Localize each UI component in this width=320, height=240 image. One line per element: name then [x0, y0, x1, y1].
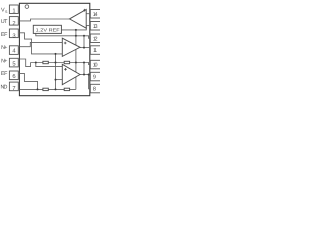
- pin boxes left: [9, 5, 18, 91]
- wire middle comparator output to pin11: [80, 47, 90, 49]
- svg-text:EF: EF: [1, 32, 8, 38]
- svg-text:UT: UT: [1, 19, 8, 25]
- wire output branch to pin8: [89, 75, 91, 89]
- pin 4 box: [9, 46, 18, 55]
- pin numbers: [12, 8, 16, 92]
- pin 9 box: [90, 72, 100, 81]
- node dot tap12/feedback: [83, 35, 85, 37]
- wire 1.2V REF output: [62, 26, 87, 30]
- wire bottom divider GND rail: [19, 88, 76, 90]
- node dot REF out tee: [75, 29, 77, 31]
- op-amp U3 bottom comparator: [62, 64, 80, 84]
- plus sign U1: [83, 9, 86, 12]
- pin 13 box: [90, 22, 100, 31]
- node dot tap12/REF: [75, 35, 77, 37]
- svg-text:6: 6: [12, 73, 15, 80]
- svg-text:1.2V REF: 1.2V REF: [36, 27, 60, 32]
- pin 11 box: [90, 46, 100, 55]
- resistor R2 divider upper-right: [64, 61, 69, 63]
- wire divider tap to pin12: [36, 33, 91, 38]
- wire pin14 to top comparator + input: [86, 13, 90, 15]
- wire branch to bottom + input: [36, 63, 63, 67]
- pin 7 box: [9, 82, 18, 91]
- plus sign U3: [64, 68, 67, 71]
- pin 5 box: [9, 58, 18, 67]
- wire middle feedback vertical: [83, 36, 85, 48]
- svg-text:7: 7: [12, 86, 15, 92]
- pin-1 indicator circle: [25, 5, 29, 9]
- pin labels left (clipped at image edge): [1, 8, 9, 91]
- resistor R1 divider upper-left: [43, 61, 48, 63]
- svg-text:1: 1: [12, 8, 15, 14]
- pin boxes right: [90, 10, 100, 93]
- node dot rail/- input: [55, 79, 57, 81]
- pin 8 box: [90, 84, 100, 93]
- op-amp U2 middle comparator: [62, 38, 80, 56]
- node dot rail/divider: [55, 62, 57, 64]
- svg-text:10: 10: [93, 63, 98, 69]
- svg-text:5: 5: [12, 62, 15, 68]
- IC body outline: [19, 3, 89, 95]
- pin 3 box: [9, 29, 18, 38]
- node dot rail/gnd rail: [55, 88, 57, 90]
- svg-text:N+: N+: [1, 45, 7, 51]
- wire pin3 REF to middle comparator - input: [19, 33, 62, 54]
- wire pin2 OUT to top comparator: [19, 19, 69, 21]
- node dot rail/min line: [55, 53, 57, 55]
- node dot divider/feedback: [83, 62, 85, 64]
- svg-text:8: 8: [93, 87, 96, 93]
- plus sign U2: [64, 42, 67, 45]
- node dot pin6/gnd rail: [37, 88, 39, 90]
- wire pin13 to top comparator - input: [86, 25, 90, 27]
- svg-text:9: 9: [93, 75, 96, 81]
- wire divider line to pin10: [31, 63, 91, 65]
- pin 2 box: [9, 17, 18, 26]
- svg-text:3: 3: [12, 32, 15, 39]
- wire bottom feedback vertical: [83, 63, 85, 75]
- resistor R3 divider lower-left: [43, 88, 48, 90]
- pin 14 box: [90, 10, 100, 19]
- svg-text:N+: N+: [1, 58, 7, 64]
- svg-text:2: 2: [12, 20, 15, 27]
- svg-text:12: 12: [93, 37, 98, 43]
- resistor R4 divider lower-right: [64, 88, 69, 90]
- wire pin6 to bottom divider: [19, 73, 37, 89]
- wire REF vertical rail: [75, 30, 77, 90]
- block 1.2V REF box: [33, 25, 61, 33]
- node dot divider/REF rail: [75, 62, 77, 64]
- wire pin5 IN+ to bottom comparator + input: [19, 59, 30, 67]
- wire bottom comparator - input: [56, 79, 63, 81]
- svg-text:EF: EF: [1, 71, 8, 77]
- node dot divider/+input branch: [35, 62, 37, 64]
- wire bottom comparator output to pin9: [80, 74, 90, 76]
- svg-text:14: 14: [93, 12, 98, 18]
- wire node rail x=55.5: [55, 54, 57, 90]
- svg-text:ND: ND: [1, 84, 8, 90]
- op-amp U1 top comparator (points left): [70, 9, 87, 28]
- wire pin4 IN+ to middle comparator + input: [19, 42, 62, 46]
- node dot mid output tee: [83, 47, 85, 49]
- pin 1 box: [9, 5, 18, 14]
- pin 10 box: [90, 60, 100, 69]
- pin 12 box: [90, 34, 100, 43]
- svg-text:13: 13: [93, 24, 98, 30]
- pin 6 box: [9, 71, 18, 80]
- node dot bottom out/feedback: [83, 74, 85, 76]
- svg-text:11: 11: [93, 48, 97, 54]
- node dot bottom out/pin8: [88, 74, 90, 76]
